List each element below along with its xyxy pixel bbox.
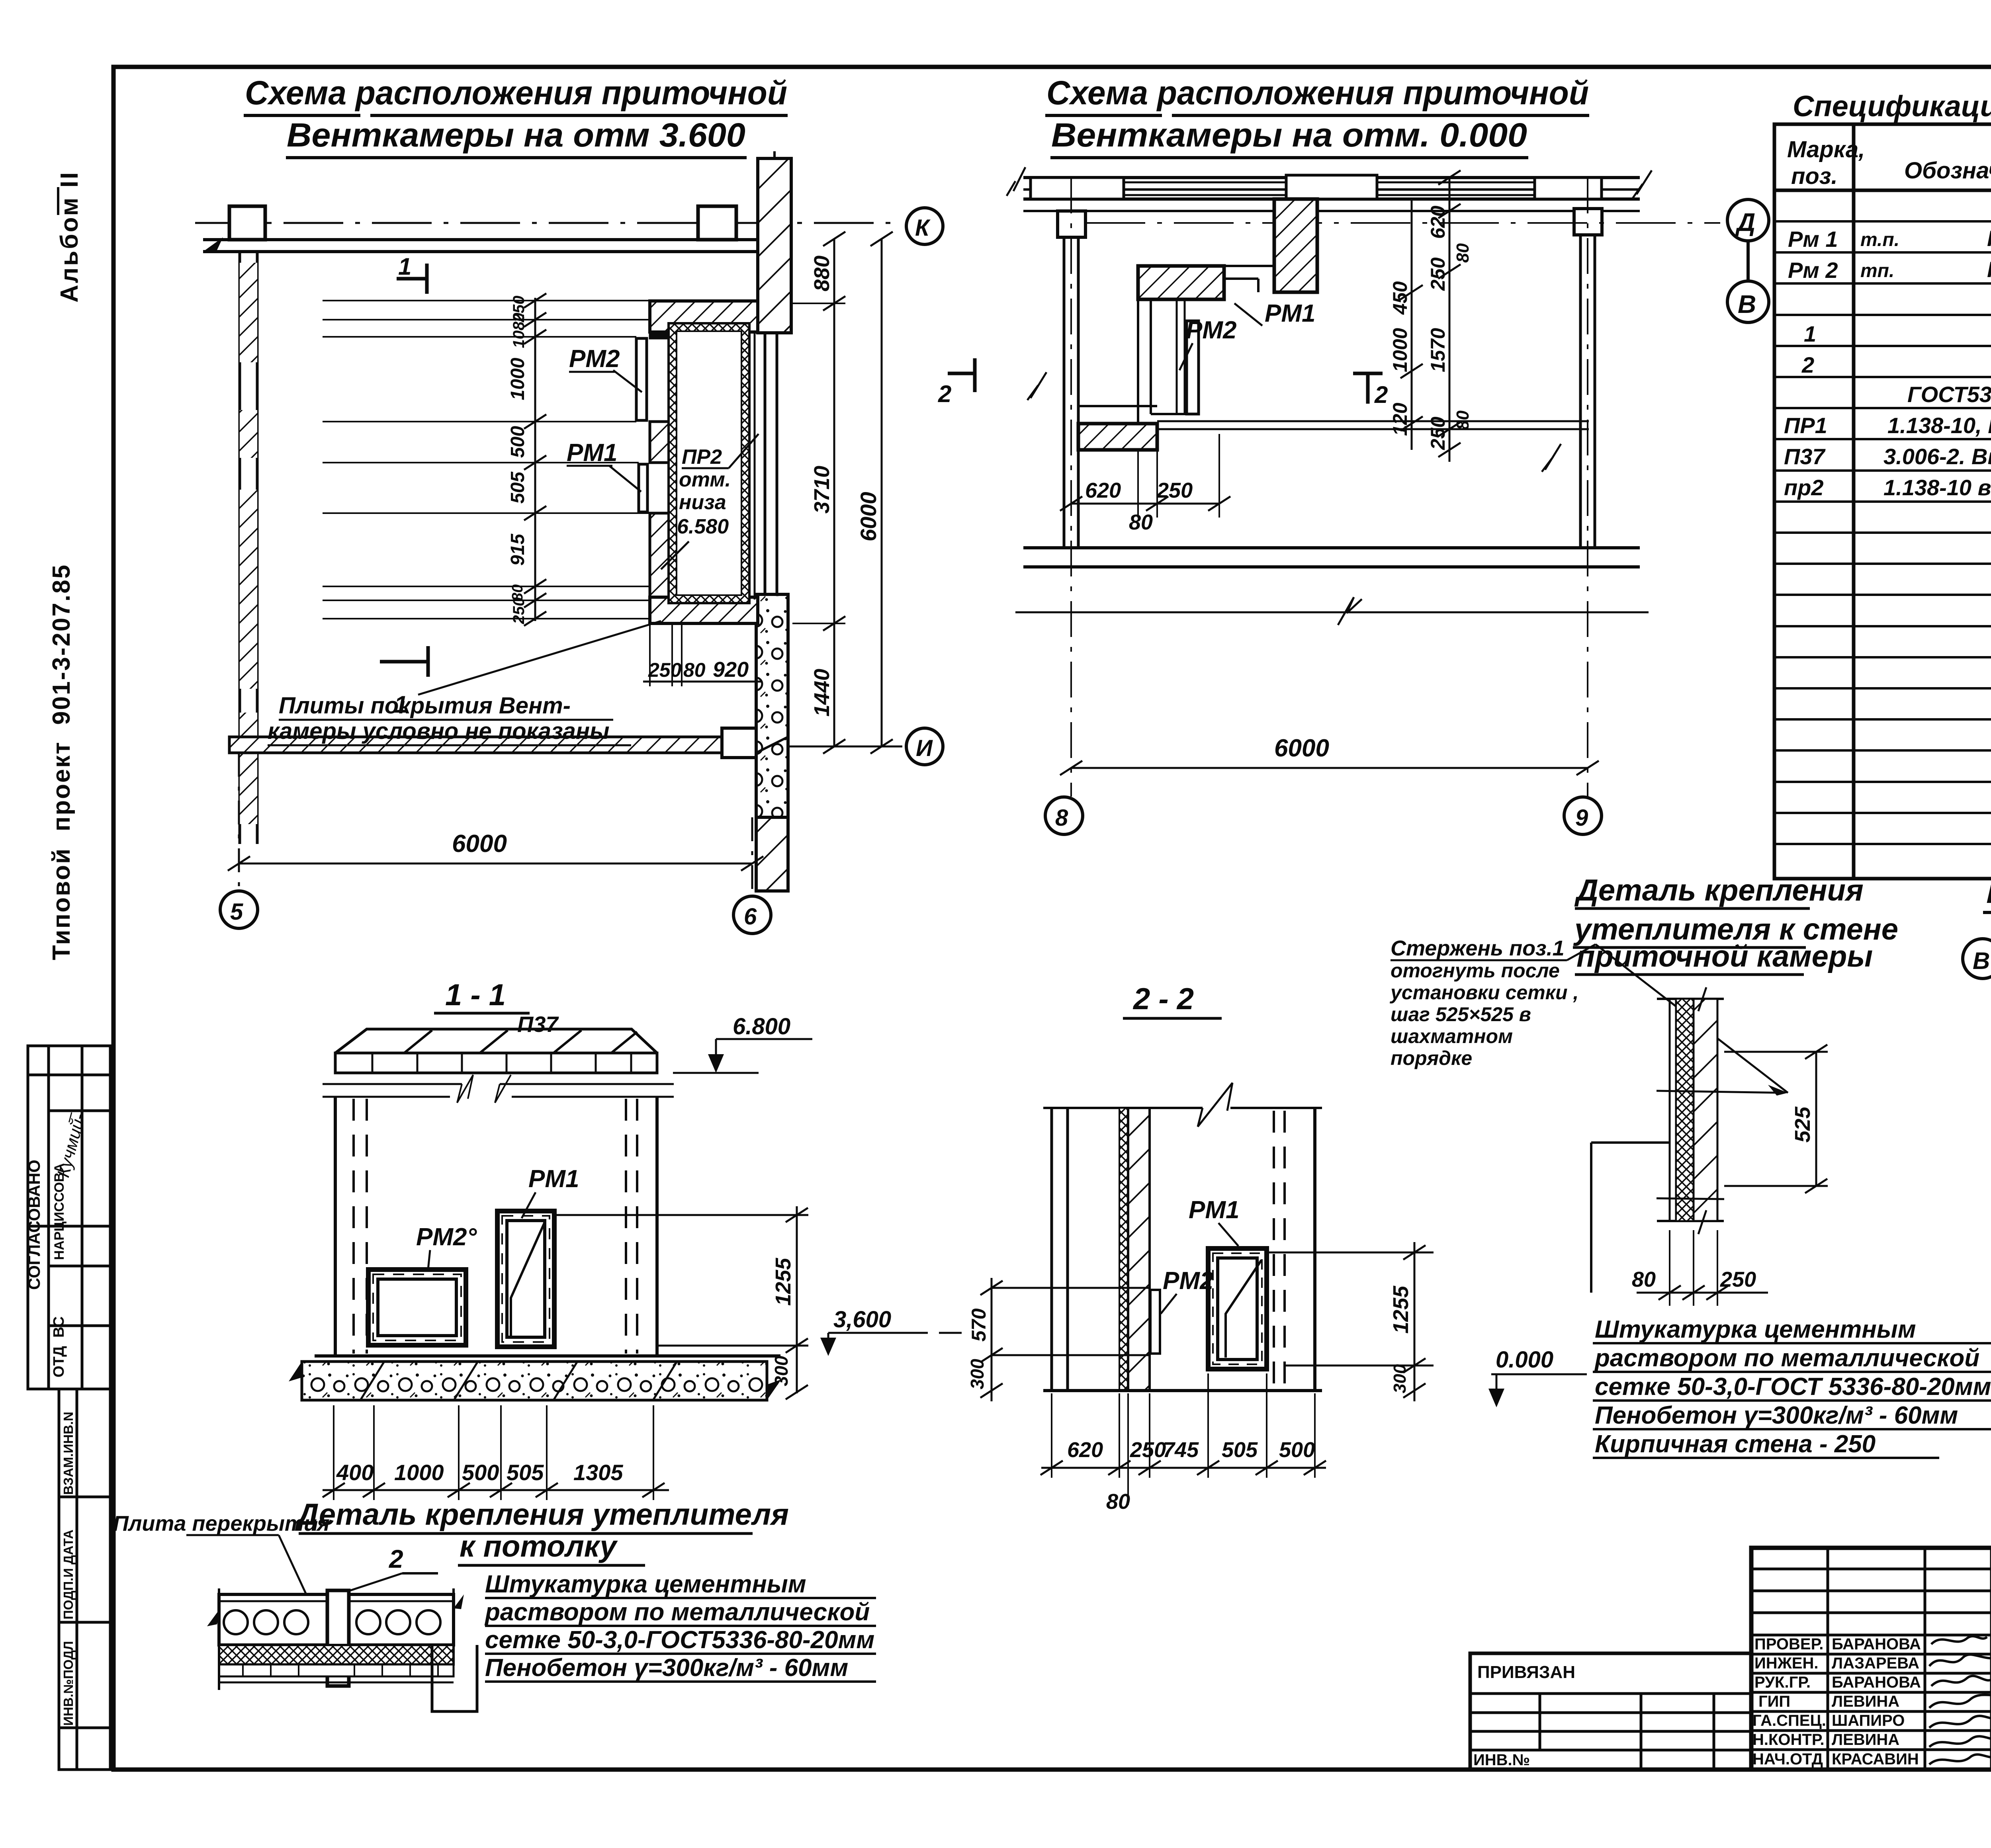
floor line	[315, 1354, 780, 1358]
brick wall hatched	[1128, 1108, 1150, 1391]
svg-text:500: 500	[462, 1460, 499, 1485]
svg-text:В: В	[1973, 947, 1990, 974]
axis line K horizontal dash-dot	[195, 222, 898, 224]
svg-text:80: 80	[1453, 243, 1473, 263]
column square top-left	[229, 206, 265, 240]
svg-text:250: 250	[510, 598, 528, 625]
right dim 1255 / 300	[554, 1214, 808, 1216]
svg-text:915: 915	[507, 533, 528, 566]
top boundary line with break	[1043, 1107, 1203, 1109]
axis dash-dot horizontal to Д	[1085, 222, 1720, 224]
roof brick band	[335, 1053, 657, 1073]
svg-text:РМ1: РМ1	[528, 1165, 579, 1193]
svg-text:250: 250	[648, 659, 682, 681]
svg-text:ИНВ.№ПОДЛ: ИНВ.№ПОДЛ	[61, 1641, 76, 1726]
axis circle К	[906, 208, 943, 244]
duct horizontal hatched band	[1138, 266, 1224, 299]
svg-text:РМ2: РМ2	[1186, 316, 1236, 344]
dim 525	[1724, 1051, 1828, 1053]
left wall (double lines)	[1063, 211, 1066, 548]
svg-text:80: 80	[1453, 410, 1473, 430]
svg-text:1 - 1: 1 - 1	[445, 978, 506, 1012]
svg-text:250: 250	[1427, 257, 1449, 291]
svg-text:505: 505	[1222, 1438, 1258, 1462]
svg-text:КРАСАВИН: КРАСАВИН	[1832, 1750, 1919, 1768]
svg-text:Схема расположения приточной: Схема расположения приточной	[1046, 74, 1589, 111]
right lower concrete column with dots	[756, 594, 788, 817]
svg-text:880: 880	[810, 256, 834, 291]
roof slab trapezoid	[335, 1029, 657, 1053]
note стержень поз.1 ...	[1389, 936, 1578, 1069]
bottom dims 80 / 250	[1670, 1230, 1717, 1306]
svg-text:РМ2: РМ2	[1163, 1267, 1213, 1295]
diagonal leader to note below	[418, 621, 661, 695]
svg-text:Д: Д	[1735, 208, 1755, 236]
svg-text:Спецификация к схемам располож: Спецификация к схемам расположения Вентк…	[1793, 90, 1991, 123]
svg-text:2: 2	[1374, 381, 1388, 408]
duct step lines	[1151, 265, 1274, 267]
svg-text:1440: 1440	[810, 669, 834, 717]
roof slab joints (diagonal ticks)	[404, 1030, 637, 1053]
svg-text:шаг 525×525 в: шаг 525×525 в	[1391, 1003, 1531, 1026]
duct vertical channel walls	[1137, 299, 1139, 424]
right column square	[1574, 209, 1602, 235]
ceiling double line with break	[323, 1083, 462, 1085]
svg-text:80: 80	[683, 659, 706, 681]
svg-text:Обозначение: Обозначение	[1904, 158, 1991, 184]
left dimension ladder line	[534, 298, 536, 621]
svg-text:СОГЛАСОВАНО: СОГЛАСОВАНО	[25, 1160, 43, 1290]
door leaf РМ1	[639, 464, 647, 512]
white lintel block in bottom wall right	[722, 728, 756, 758]
svg-text:КЖЦ РМ2: КЖЦ РМ2	[1987, 257, 1991, 282]
svg-text:Плиты покрытия Вент-: Плиты покрытия Вент-	[279, 693, 571, 719]
svg-text:Н.КОНТР.: Н.КОНТР.	[1752, 1731, 1825, 1748]
svg-text:ИНВ.№: ИНВ.№	[1473, 1751, 1530, 1769]
svg-text:1000: 1000	[507, 357, 528, 400]
right overall dim 6000	[881, 239, 883, 746]
svg-text:Схема расположения приточной: Схема расположения приточной	[245, 74, 787, 111]
svg-text:к потолку: к потолку	[460, 1530, 618, 1563]
bottom dimension chain	[334, 1405, 653, 1500]
svg-text:0.000: 0.000	[1496, 1347, 1553, 1373]
svg-text:К: К	[915, 215, 931, 241]
top wall inner lines	[1023, 188, 1640, 191]
bottom wall band	[1023, 546, 1640, 549]
long double lines to the right	[1157, 420, 1589, 422]
svg-text:Пенобетон γ=300кг/м³ - 60мм: Пенобетон γ=300кг/м³ - 60мм	[485, 1654, 848, 1682]
svg-text:5: 5	[230, 899, 243, 925]
wall layers	[1657, 998, 1724, 1000]
svg-text:570: 570	[968, 1308, 990, 1342]
svg-text:раствором по металлической: раствором по металлической	[484, 1598, 870, 1626]
svg-text:400: 400	[336, 1460, 374, 1485]
svg-text:6000: 6000	[856, 492, 881, 541]
section mark 2 (middle)	[1353, 372, 1383, 375]
svg-text:БАРАНОВА: БАРАНОВА	[1832, 1674, 1921, 1691]
chamber left wall hatched segments	[650, 332, 672, 338]
window РМ1	[1208, 1248, 1267, 1369]
chamber inner insulation lining	[669, 323, 749, 603]
mesh anchor line across wall	[1657, 1091, 1784, 1093]
svg-text:620: 620	[1085, 479, 1121, 502]
axis circle И	[788, 746, 902, 748]
svg-text:620: 620	[1427, 205, 1449, 239]
svg-text:В: В	[1738, 290, 1756, 318]
bottom duct hatched band	[1078, 424, 1157, 450]
break marks at wall ends	[1007, 167, 1025, 196]
svg-text:раствором по металлической: раствором по металлической	[1594, 1344, 1979, 1372]
svg-text:П37: П37	[1784, 444, 1826, 469]
svg-text:низа: низа	[679, 491, 726, 514]
hollow-core slab	[219, 1594, 454, 1645]
svg-text:ИНЖЕН.: ИНЖЕН.	[1754, 1655, 1818, 1672]
lower dim line with break	[1015, 611, 1649, 613]
svg-text:ГИП: ГИП	[1758, 1693, 1790, 1710]
right dim chain 880/3710/1440	[833, 239, 835, 746]
bottom wall hatched band	[229, 737, 724, 753]
vertical dim chains (620/80/250/450/1000/120/250 & 1570)	[1411, 199, 1413, 450]
svg-text:6: 6	[744, 904, 757, 930]
table header text	[1787, 135, 1991, 189]
plaster brick band	[219, 1664, 454, 1676]
svg-text:Деталь крепления: Деталь крепления	[1574, 873, 1864, 907]
svg-text:120: 120	[1389, 402, 1411, 436]
lintel blocks in top wall	[1031, 178, 1124, 199]
svg-text:80: 80	[1106, 1490, 1130, 1514]
svg-text:Рм 1: Рм 1	[1788, 227, 1838, 252]
svg-text:620: 620	[1067, 1438, 1103, 1462]
svg-text:ЛЕВИНА: ЛЕВИНА	[1832, 1693, 1899, 1710]
РМ2 door leaf in duct	[1187, 321, 1199, 414]
svg-text:Венткамеры на отм. 0.000: Венткамеры на отм. 0.000	[1051, 116, 1527, 154]
svg-text:установки сетки ,: установки сетки ,	[1389, 981, 1578, 1004]
svg-text:745: 745	[1163, 1438, 1199, 1462]
svg-text:ЛАЗАРЕВА: ЛАЗАРЕВА	[1832, 1655, 1919, 1672]
svg-text:НАЧ.ОТД: НАЧ.ОТД	[1752, 1750, 1823, 1768]
svg-text:3710: 3710	[810, 466, 834, 514]
svg-text:505: 505	[507, 1460, 544, 1485]
svg-text:камеры условно не показаны: камеры условно не показаны	[268, 718, 610, 744]
svg-text:пр2: пр2	[1784, 475, 1824, 500]
left staff grid	[1751, 1548, 1991, 1770]
svg-text:1255: 1255	[1389, 1285, 1413, 1334]
left dims 570 / 300	[992, 1287, 1151, 1289]
anchor strip	[327, 1590, 349, 1686]
right step	[432, 1645, 477, 1711]
svg-text:920: 920	[713, 658, 749, 682]
svg-text:6000: 6000	[452, 830, 507, 858]
left wall (thin, partially hatched)	[239, 252, 241, 844]
svg-text:тп.: тп.	[1860, 260, 1894, 281]
chamber top hatched band	[650, 301, 758, 332]
svg-text:1570: 1570	[1427, 328, 1449, 372]
svg-text:отм.: отм.	[679, 468, 731, 491]
svg-text:300: 300	[771, 1356, 792, 1386]
top wall band	[203, 238, 758, 241]
svg-text:6000: 6000	[1274, 735, 1329, 762]
svg-text:3.006-2. Вып ІІ-2: 3.006-2. Вып ІІ-2	[1883, 444, 1991, 469]
floor slab textured band	[302, 1362, 767, 1400]
left margin strips: ВЗАМ.ИНВ.N / ПОДП. И ДАТА / ИНВ.№ПОДЛ	[59, 1389, 110, 1770]
svg-text:Кирпичная стена - 250: Кирпичная стена - 250	[1595, 1430, 1876, 1458]
svg-text:шахматном: шахматном	[1391, 1025, 1513, 1047]
svg-text:ВЗАМ.ИНВ.N: ВЗАМ.ИНВ.N	[61, 1412, 76, 1495]
svg-text:1000: 1000	[394, 1460, 444, 1485]
svg-text:ШАПИРО: ШАПИРО	[1832, 1712, 1905, 1729]
svg-text:ПРОВЕР.: ПРОВЕР.	[1754, 1635, 1823, 1653]
svg-text:Деталь крепления утеплителя: Деталь крепления утеплителя	[295, 1498, 789, 1532]
svg-text:сетке 50-3,0-ГОСТ5336-80-20мм: сетке 50-3,0-ГОСТ5336-80-20мм	[485, 1626, 874, 1654]
chamber bottom hatched band	[650, 597, 758, 623]
svg-text:500: 500	[1279, 1438, 1315, 1462]
right wall top hatched pier	[758, 158, 791, 333]
svg-text:300: 300	[1390, 1364, 1410, 1393]
right dims 1255 / 300	[1267, 1252, 1434, 1254]
svg-text:РМ2°: РМ2°	[416, 1223, 477, 1251]
svg-text:2: 2	[938, 381, 951, 407]
svg-text:1: 1	[398, 253, 411, 280]
svg-text:поз.: поз.	[1791, 163, 1838, 189]
label ПР2 отм. низа 6.580	[677, 445, 731, 538]
heading деталь крепления утеплителя к стене приточной камеры	[1573, 873, 1898, 973]
svg-text:1000: 1000	[1389, 328, 1411, 372]
plaster note block (bottom left)	[484, 1571, 874, 1682]
svg-text:приточной камеры: приточной камеры	[1576, 940, 1873, 973]
window РМ2	[368, 1270, 466, 1345]
duct: vertical hatched pier from top wall	[1274, 199, 1317, 292]
svg-text:ЛЕВИНА: ЛЕВИНА	[1832, 1731, 1899, 1748]
svg-text:ПР1: ПР1	[1784, 413, 1827, 438]
bottom dim chain	[1052, 1373, 1315, 1505]
svg-text:1255: 1255	[771, 1258, 795, 1306]
axis dash-dot vertical lines	[1070, 178, 1072, 797]
svg-text:И: И	[916, 735, 933, 761]
chamber inner right wall lines	[748, 332, 751, 600]
ПРИВЯЗАН box	[1470, 1653, 1751, 1770]
bottom floor line	[1043, 1389, 1322, 1392]
door leaf РМ2	[636, 338, 647, 420]
svg-text:1.138-10, Вып 1: 1.138-10, Вып 1	[1887, 413, 1991, 438]
left arrow tick on top wall	[203, 237, 223, 252]
svg-text:Альбом ІІ: Альбом ІІ	[56, 171, 83, 303]
svg-text:порядке: порядке	[1391, 1047, 1472, 1069]
svg-text:1305: 1305	[573, 1460, 623, 1485]
svg-text:505: 505	[507, 471, 528, 504]
svg-text:БАРАНОВА: БАРАНОВА	[1832, 1635, 1921, 1653]
heading: Схема расположения приточной Венткамеры на отм. 0.000	[1046, 74, 1589, 154]
svg-text:250: 250	[1156, 479, 1193, 502]
svg-text:1.138-10 вып 1: 1.138-10 вып 1	[1883, 475, 1991, 500]
staff labels	[1752, 1635, 1921, 1768]
svg-text:РУК.ГР.: РУК.ГР.	[1754, 1674, 1811, 1691]
table data rows	[1784, 195, 1991, 500]
svg-text:1080: 1080	[510, 313, 528, 348]
svg-text:6.580: 6.580	[677, 515, 729, 538]
svg-text:Выбросная шахта В кровле: Выбросная шахта В кровле	[1986, 876, 1991, 909]
svg-text:ОТД ВС: ОТД ВС	[51, 1317, 67, 1377]
specification table grid	[1774, 124, 1991, 879]
break marks on walls	[1027, 372, 1046, 400]
svg-text:Типовой проект 901-3-207.85: Типовой проект 901-3-207.85	[48, 564, 75, 960]
svg-text:ГА.СПЕЦ.: ГА.СПЕЦ.	[1752, 1712, 1826, 1729]
right wall below to bottom	[756, 817, 788, 891]
svg-text:3,600: 3,600	[833, 1307, 891, 1332]
svg-text:6.800: 6.800	[733, 1014, 790, 1039]
bottom dim 6000 with grid bubbles 5 and 6	[238, 753, 240, 891]
svg-text:250: 250	[1427, 416, 1449, 450]
right wall mid (double thin lines)	[764, 333, 767, 594]
approval table (СОГЛАСОВАНО)	[28, 1046, 110, 1389]
svg-text:2 - 2: 2 - 2	[1132, 982, 1194, 1016]
svg-text:250: 250	[1130, 1438, 1166, 1462]
leader from chamber interior to note	[661, 541, 689, 569]
svg-text:ПРИВЯЗАН: ПРИВЯЗАН	[1477, 1662, 1575, 1682]
wall face line below	[1023, 210, 1640, 212]
svg-text:250: 250	[1720, 1268, 1756, 1291]
axis circles Д and В left of spec table	[1727, 199, 1769, 322]
svg-text:Штукатурка цементным: Штукатурка цементным	[1595, 1316, 1916, 1343]
left column square	[1058, 211, 1085, 237]
insulation cross-hatch strip	[1119, 1108, 1128, 1391]
svg-text:9: 9	[1575, 805, 1588, 831]
section mark 2 (left)	[973, 358, 977, 392]
svg-text:Венткамеры на отм 3.600: Венткамеры на отм 3.600	[287, 116, 745, 154]
left face double lines	[1050, 1108, 1053, 1391]
svg-text:Марка,: Марка,	[1787, 137, 1865, 162]
slab side edges	[218, 1588, 220, 1690]
svg-text:РМ1: РМ1	[1265, 300, 1315, 327]
ladder extension lines	[323, 301, 650, 619]
svg-text:1: 1	[1804, 321, 1816, 346]
svg-text:сетке 50-3,0-ГОСТ 5336-80-20м: сетке 50-3,0-ГОСТ 5336-80-20мм	[1595, 1373, 1991, 1401]
svg-text:КЖЦ. РМ1: КЖЦ. РМ1	[1987, 226, 1991, 251]
svg-text:80: 80	[1129, 510, 1153, 534]
РМ2 panel on wall	[1150, 1290, 1160, 1354]
signatures (squiggles)	[1929, 1636, 1991, 1764]
svg-text:ПР2: ПР2	[682, 445, 722, 469]
svg-text:Рм 2: Рм 2	[1788, 258, 1838, 283]
svg-text:525: 525	[1791, 1106, 1815, 1143]
svg-text:8: 8	[1055, 805, 1068, 831]
svg-text:450: 450	[1389, 281, 1411, 315]
plaster note block (middle)	[1594, 1316, 1991, 1458]
top wall outer line	[1023, 176, 1640, 179]
heading: Схема расположения приточной Венткамеры на отм 3.600	[245, 74, 787, 154]
right wall (double lines)	[1579, 211, 1582, 548]
window РМ1	[497, 1211, 554, 1347]
svg-text:ПОДП.И ДАТА: ПОДП.И ДАТА	[61, 1530, 76, 1619]
right dashed pair	[1274, 1111, 1285, 1389]
insulation cross-hatch band	[219, 1645, 454, 1664]
svg-text:2: 2	[389, 1545, 403, 1573]
svg-text:РМ2: РМ2	[569, 345, 620, 373]
horizontal ledge line	[1591, 1141, 1670, 1144]
right solid wall line	[1313, 1108, 1316, 1391]
svg-text:Стержень поз.1: Стержень поз.1	[1391, 936, 1565, 960]
svg-text:2: 2	[1801, 352, 1814, 377]
section mark 1 (bottom)	[426, 646, 430, 677]
svg-text:Штукатурка цементным: Штукатурка цементным	[485, 1571, 806, 1598]
svg-text:Пенобетон γ=300кг/м³ - 60мм: Пенобетон γ=300кг/м³ - 60мм	[1595, 1402, 1958, 1429]
svg-text:ГОСТ5336-80: ГОСТ5336-80	[1907, 382, 1991, 407]
overall dim 6000	[1071, 767, 1588, 769]
left margin label: Альбом II	[57, 187, 59, 215]
svg-text:РМ1: РМ1	[1189, 1196, 1239, 1224]
svg-text:отогнуть после: отогнуть после	[1391, 959, 1560, 982]
section mark 1 (top)	[397, 277, 427, 281]
axis В circle	[1963, 939, 1991, 979]
svg-text:П37: П37	[517, 1012, 559, 1037]
svg-text:500: 500	[507, 426, 528, 458]
svg-text:80: 80	[1632, 1268, 1656, 1291]
grid bubbles 8 and 9	[1045, 797, 1083, 834]
ladder dimension numbers (rotated)	[507, 296, 528, 625]
column square top-right	[698, 206, 736, 240]
walls	[334, 1097, 337, 1356]
svg-text:300: 300	[967, 1359, 988, 1389]
svg-text:т.п.: т.п.	[1860, 229, 1899, 250]
